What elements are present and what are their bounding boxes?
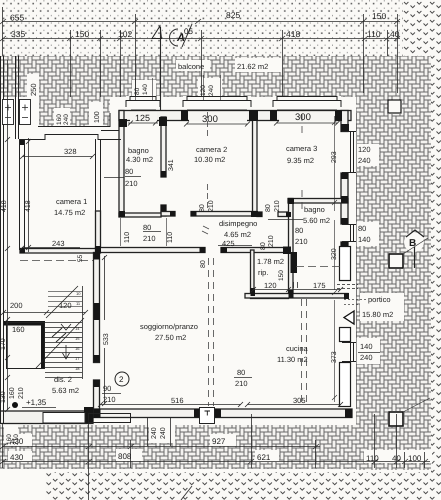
- svg-text:dis. 2: dis. 2: [54, 375, 72, 384]
- svg-text:4.65 m2: 4.65 m2: [224, 230, 251, 239]
- column mid border: [389, 254, 403, 268]
- svg-text:5.63 m2: 5.63 m2: [52, 386, 79, 395]
- svg-text:27.50 m2: 27.50 m2: [155, 333, 186, 342]
- svg-text:9.35 m2: 9.35 m2: [287, 156, 314, 165]
- svg-text:210: 210: [274, 200, 281, 212]
- svg-text:150: 150: [372, 11, 386, 21]
- svg-text:120: 120: [59, 301, 72, 310]
- lift box dark right wall: [41, 321, 45, 369]
- svg-text:140: 140: [360, 342, 373, 351]
- 240 240 rotated patch: [149, 423, 175, 443]
- svg-text:80: 80: [358, 224, 366, 233]
- section line dashed through cucina double: [302, 299, 307, 406]
- section marker A slash: [182, 24, 192, 47]
- portico pilaster mid: [340, 328, 351, 342]
- soggiorno left wall door jambs: [94, 355, 100, 362]
- 240 ext lines bottom: [148, 418, 171, 446]
- camera1 bottom wall: [20, 249, 96, 254]
- svg-text:cucina: cucina: [286, 344, 309, 353]
- B marker chevron: [406, 230, 424, 237]
- svg-text:240: 240: [358, 156, 371, 165]
- svg-text:927: 927: [212, 437, 226, 446]
- stair break marks: [52, 328, 66, 342]
- svg-text:418: 418: [25, 200, 32, 212]
- porch step box 2: [89, 414, 131, 423]
- camera3 bottom wall right seg: [278, 212, 291, 217]
- top dim line 1: [2, 21, 400, 23]
- svg-text:15.80 m2: 15.80 m2: [362, 310, 393, 319]
- svg-text:4.30 m2: 4.30 m2: [126, 155, 153, 164]
- svg-text:14.75 m2: 14.75 m2: [54, 208, 85, 217]
- 160/240 label patch left: [54, 108, 70, 126]
- right wall window jambs: [341, 126, 348, 132]
- 120/240 patch win2: [198, 78, 222, 97]
- bagno2 80/210 leader: [268, 219, 303, 221]
- entry door T mark: [205, 411, 211, 416]
- svg-text:250: 250: [29, 83, 38, 96]
- svg-text:655: 655: [10, 13, 24, 23]
- svg-text:balcone: balcone: [178, 62, 204, 71]
- svg-text:110: 110: [366, 454, 379, 463]
- divider1 door jambs: [161, 171, 167, 177]
- svg-text:soggiorno/pranzo: soggiorno/pranzo: [140, 322, 198, 331]
- soggiorno left wall lower: [94, 380, 100, 413]
- camera2 bottom door jambs: [170, 211, 176, 217]
- svg-text:516: 516: [171, 396, 184, 405]
- cucina top dim line: [251, 287, 343, 292]
- svg-text:373: 373: [331, 351, 338, 363]
- top extension verticals: [3, 7, 398, 97]
- soggiorno left wall upper: [94, 253, 100, 363]
- svg-text:170: 170: [0, 338, 7, 350]
- corridor bottom wall left seg (soggiorno top): [96, 248, 206, 253]
- camera3 door jambs: [257, 212, 262, 217]
- svg-text:210: 210: [125, 179, 138, 188]
- bagno1/camera2 divider lower: [161, 205, 166, 216]
- bottom wall soggiorno left seg: [94, 409, 201, 418]
- svg-text:16: 16: [75, 346, 80, 351]
- duct strip top line: [101, 130, 119, 132]
- svg-text:5.60 m2: 5.60 m2: [303, 216, 330, 225]
- 100 label patch: [89, 102, 103, 126]
- camera1 right wall bottom: [95, 246, 101, 253]
- tread numbers: [75, 291, 81, 371]
- jamb blob win300b right: [335, 110, 342, 121]
- 80/140 patch win1: [132, 80, 156, 96]
- bottom ground band: [45, 472, 441, 500]
- svg-text:240: 240: [360, 353, 373, 362]
- rip door leaf: [291, 252, 298, 273]
- svg-text:120: 120: [264, 281, 277, 290]
- svg-text:150: 150: [278, 270, 285, 281]
- bottom extension verticals: [3, 414, 425, 500]
- top-right scale corner: [403, 0, 441, 57]
- window glass line win300b: [277, 109, 337, 111]
- top dim ticks line1: [0, 19, 400, 24]
- svg-text:210: 210: [235, 379, 248, 388]
- svg-text:bagno: bagno: [304, 205, 325, 214]
- svg-text:21.62 m2: 21.62 m2: [237, 62, 268, 71]
- portico pilaster lower: [340, 363, 351, 407]
- right hatch strip: [356, 56, 441, 470]
- 927 patch: [210, 434, 236, 446]
- corridor bottom wall right seg: [221, 248, 288, 253]
- svg-text:335: 335: [11, 29, 25, 39]
- top dim line 2: [2, 38, 400, 40]
- svg-text:341: 341: [168, 159, 175, 171]
- portico leader dots: [344, 299, 366, 301]
- svg-text:175: 175: [313, 281, 326, 290]
- svg-text:102: 102: [118, 29, 132, 39]
- soggiorno left wall top: [94, 253, 101, 260]
- unit right wall (camera3 above window): [341, 111, 348, 132]
- svg-text:portico: portico: [368, 295, 391, 304]
- left dim ticks: [5, 137, 10, 412]
- svg-text:100: 100: [408, 454, 422, 463]
- svg-text:2: 2: [119, 375, 124, 384]
- svg-text:80: 80: [125, 167, 133, 176]
- window sill win300b: [273, 97, 341, 108]
- balcone hatch strip: [0, 56, 356, 97]
- corridor door jambs: [200, 247, 206, 253]
- svg-text:110: 110: [124, 232, 131, 243]
- column cutout mid: [388, 253, 404, 269]
- portico label patch: [360, 293, 404, 321]
- level dot +1,35: [12, 402, 18, 408]
- 430 patch 2: [8, 451, 32, 462]
- svg-text:80: 80: [237, 368, 245, 377]
- svg-text:+1,35: +1,35: [26, 398, 47, 407]
- 425 dim line disimpegno: [218, 245, 252, 247]
- 140/240 patch right cucina window: [348, 342, 357, 362]
- svg-text:11.30 m2: 11.30 m2: [277, 355, 308, 364]
- svg-text:320: 320: [331, 248, 338, 260]
- cucina top wall corners: [344, 293, 349, 299]
- svg-text:621: 621: [257, 453, 271, 462]
- camera2/3 divider bottom: [251, 211, 258, 217]
- stair arrow chevron upper: [61, 324, 71, 330]
- svg-text:418: 418: [286, 29, 300, 39]
- svg-text:160: 160: [56, 114, 63, 125]
- svg-text:55: 55: [77, 254, 84, 262]
- svg-text:300: 300: [202, 114, 218, 125]
- stair diagonal lower: [36, 318, 84, 368]
- svg-text:10.30 m2: 10.30 m2: [194, 155, 225, 164]
- camera1 bottom left corner: [20, 248, 25, 253]
- bagno1 bottom corner: [119, 211, 125, 217]
- soggiorno left wall blob at stair top: [94, 303, 100, 320]
- portico lintel dashes: [337, 285, 358, 289]
- svg-text:camera 2: camera 2: [196, 145, 227, 154]
- svg-text:210: 210: [268, 235, 275, 247]
- svg-text:140: 140: [358, 235, 371, 244]
- portico pilaster upper: [340, 247, 351, 281]
- B marker stem: [414, 247, 416, 268]
- svg-text:80: 80: [260, 242, 267, 250]
- entry door box: [200, 408, 215, 424]
- svg-text:130: 130: [0, 391, 7, 403]
- column bottom leader: [403, 398, 430, 412]
- camera1 top left corner: [19, 139, 25, 145]
- bottom wall right seg cucina: [215, 409, 352, 418]
- portico dashed edge: [344, 304, 358, 306]
- jamb blob win300b left: [270, 110, 277, 121]
- section B dashed horizontal: [20, 261, 344, 267]
- section A vertical line: [160, 27, 162, 110]
- svg-text:40: 40: [392, 454, 401, 463]
- 305 dim line cucina: [245, 402, 343, 407]
- svg-text:80: 80: [199, 204, 206, 212]
- svg-text:90: 90: [103, 384, 111, 393]
- svg-text:80: 80: [295, 226, 303, 235]
- svg-text:17: 17: [75, 356, 80, 361]
- right rooms vertical dim line: [332, 116, 337, 402]
- svg-text:808: 808: [118, 452, 132, 461]
- svg-text:300: 300: [295, 112, 311, 123]
- 621 patch: [255, 450, 279, 462]
- svg-text:10: 10: [76, 291, 81, 296]
- B marker patch: [404, 232, 424, 252]
- svg-text:210: 210: [18, 387, 25, 399]
- column top border: [388, 100, 401, 113]
- bagno2 bottom left corner: [289, 290, 294, 298]
- camera3 bottom wall left seg: [257, 212, 262, 217]
- left vertical dim line: [7, 60, 9, 410]
- camera1 top boundary stepped line: [20, 135, 121, 140]
- camera1 right wall thin lines: [95, 139, 97, 213]
- svg-text:160: 160: [12, 325, 25, 334]
- svg-text:40: 40: [390, 29, 400, 39]
- top dim ticks line2: [0, 36, 400, 41]
- window opening clears in top wall band: [130, 112, 336, 122]
- top dotted band: [0, 0, 405, 56]
- svg-text:305: 305: [293, 396, 306, 405]
- svg-text:80: 80: [143, 223, 151, 232]
- corner right top: [341, 124, 349, 132]
- svg-text:120: 120: [358, 145, 371, 154]
- unit right wall (below bagno2 window): [341, 242, 348, 247]
- left outer wall bottom part: [0, 411, 93, 424]
- lift box dark top: [3, 321, 45, 326]
- lift box stair: [7, 323, 45, 369]
- window boxes top-left: [3, 100, 14, 125]
- svg-text:240: 240: [160, 427, 167, 439]
- camera1 right wall lower: [96, 211, 101, 253]
- svg-text:150: 150: [75, 29, 89, 39]
- svg-text:camera 3: camera 3: [286, 144, 317, 153]
- window glass line win125: [131, 109, 156, 111]
- balcone window label dim lines: [136, 75, 221, 100]
- svg-text:110: 110: [167, 232, 174, 243]
- portico entry triangle: [344, 311, 354, 324]
- white cutouts in hatch for labels: [4, 58, 432, 463]
- 140/240 fraction bar: [358, 352, 380, 354]
- svg-text:80: 80: [200, 260, 207, 268]
- cucina window right sill: [342, 342, 356, 362]
- svg-text:430: 430: [10, 453, 24, 462]
- svg-text:15: 15: [75, 336, 80, 341]
- svg-text:430: 430: [10, 437, 24, 446]
- jamb blob win125 right / divider top: [159, 117, 167, 126]
- door swing dashes disimpegno: [202, 226, 209, 234]
- circled 2 soggiorno: [115, 372, 129, 386]
- porch step box 1: [43, 413, 85, 424]
- corridor 80/210 fraction bar: [143, 231, 161, 233]
- top wall band full: [119, 111, 351, 121]
- 328 dim line camera1: [20, 154, 95, 159]
- left outer wall bottom corner blob: [84, 407, 93, 423]
- 300 dim line win2: [184, 122, 250, 127]
- stair block left wall line: [15, 56, 17, 139]
- window sill win300a: [183, 97, 251, 108]
- svg-text:rip.: rip.: [258, 268, 268, 277]
- svg-text:camera 1: camera 1: [56, 197, 87, 206]
- bottom ticks: [0, 444, 428, 464]
- section A dashed through camera2: [207, 112, 209, 211]
- svg-text:1.78 m2: 1.78 m2: [257, 257, 284, 266]
- svg-text:200: 200: [10, 301, 23, 310]
- section A dashed through soggiorno/cucina double: [209, 258, 214, 406]
- bottom hatch strip: [0, 425, 441, 469]
- section line dashed through camera3: [301, 114, 303, 212]
- corridor vertical dim lines: [121, 218, 167, 246]
- cucina top wall: [245, 294, 348, 299]
- stair treads upper flight: [48, 292, 82, 307]
- right edge ground strip: [431, 56, 441, 472]
- 90/210 fraction bar: [102, 393, 121, 395]
- stair treads lower flight: [45, 323, 82, 378]
- svg-text:100: 100: [94, 111, 101, 123]
- 430 patch 1: [8, 434, 32, 446]
- camera2/camera3 divider: [253, 112, 258, 214]
- section squiggle bottom: [181, 486, 192, 500]
- 200/120 dim line stairs: [1, 310, 88, 408]
- 450/210 rotated patch: [4, 423, 18, 443]
- camera3 window right sill: [342, 131, 356, 173]
- column mid leader: [403, 238, 428, 254]
- stair side line: [82, 286, 84, 379]
- svg-text:210: 210: [143, 234, 156, 243]
- window glass line win300a: [187, 109, 247, 111]
- svg-text:210: 210: [103, 395, 116, 404]
- balcone label patch: [176, 60, 210, 71]
- camera2 bottom wall right seg: [191, 212, 257, 217]
- bottom dim line 2: [2, 461, 430, 463]
- bagno2 top left corner: [288, 198, 294, 204]
- entry door jambs: [194, 409, 200, 418]
- stair down arrow: [63, 345, 70, 359]
- 125 dim line win1: [128, 121, 158, 126]
- svg-text:120: 120: [200, 85, 207, 96]
- svg-text:418: 418: [1, 200, 8, 212]
- rip door jamb block: [283, 247, 291, 255]
- svg-text:140: 140: [142, 84, 149, 95]
- camera1 left wall double line: [19, 139, 21, 250]
- svg-text:B: B: [409, 238, 416, 249]
- camera2 bottom wall left seg: [161, 212, 175, 217]
- svg-text:160: 160: [9, 387, 16, 399]
- rip bottom wall: [251, 295, 289, 299]
- 516 dim line soggiorno: [98, 402, 243, 407]
- wall junction black blobs: [3, 110, 352, 423]
- svg-text:14: 14: [75, 326, 80, 331]
- section marker A arc: [170, 29, 179, 46]
- soggiorno 533 dim line: [102, 255, 107, 406]
- svg-text:05: 05: [184, 27, 193, 36]
- bagno2 window right sill: [342, 224, 356, 242]
- 243 dim line camera1: [20, 245, 80, 250]
- bagno1 left wall: [119, 111, 124, 217]
- bottom dim line 1: [2, 446, 320, 448]
- column cutout top: [388, 100, 402, 114]
- stair diagonal upper: [46, 286, 78, 318]
- 80/210 cucina fraction bar: [234, 377, 252, 379]
- svg-text:240: 240: [63, 114, 70, 125]
- 300 dim line win3: [274, 121, 340, 126]
- 80/140 patch right bagno2 window: [348, 224, 357, 242]
- far left outer wall lines: [0, 56, 2, 424]
- bottom wall right corner: [345, 409, 352, 418]
- bottom wall left corner: [94, 409, 101, 418]
- svg-text:533: 533: [103, 333, 110, 345]
- rip left wall: [251, 250, 255, 296]
- svg-text:328: 328: [64, 147, 77, 156]
- bagno1 bottom wall: [119, 213, 161, 217]
- rip bottom left corner: [251, 288, 256, 296]
- camera1 left inner dim line: [26, 138, 31, 252]
- svg-text:disimpegno: disimpegno: [219, 219, 257, 228]
- bagno1/camera2 divider upper: [161, 117, 166, 177]
- bagno1 80/210 leader: [104, 177, 141, 178]
- svg-text:243: 243: [52, 239, 65, 248]
- bagno2 top wall: [288, 199, 348, 204]
- double tick marks near 175: [294, 282, 298, 288]
- svg-text:425: 425: [222, 239, 235, 248]
- balcone inner edge above camera1: [38, 113, 110, 127]
- hatch edge line right: [356, 113, 358, 409]
- svg-text:293: 293: [331, 151, 338, 163]
- 250 label patch: [27, 74, 39, 126]
- column cutout bottom: [388, 411, 404, 427]
- svg-text:80: 80: [134, 87, 141, 95]
- svg-text:80: 80: [265, 204, 272, 212]
- svg-text:18: 18: [75, 366, 80, 371]
- bagno2 left wall: [289, 199, 294, 297]
- svg-text:125: 125: [135, 113, 150, 123]
- window sill win125: [126, 97, 160, 108]
- svg-text:210: 210: [208, 200, 215, 212]
- 110 40 100 patch: [364, 450, 432, 463]
- window sill whites: [126, 96, 160, 108]
- unit right wall (camera3 window to bagno2 window): [341, 173, 348, 224]
- svg-text:825: 825: [226, 10, 240, 20]
- svg-text:240: 240: [208, 85, 215, 96]
- 808 patch: [116, 449, 142, 461]
- 120/240 patch right camera3 window: [348, 131, 357, 173]
- jamb blob win300a right divider top: [249, 110, 258, 121]
- svg-text:240: 240: [151, 427, 158, 439]
- svg-text:A: A: [176, 32, 185, 44]
- svg-text:110: 110: [367, 29, 381, 39]
- section marker A triangle: [152, 26, 162, 39]
- column bottom border: [389, 412, 403, 426]
- jamb blob win300a left: [181, 110, 188, 121]
- svg-text:210: 210: [295, 237, 308, 246]
- svg-text:bagno: bagno: [128, 146, 149, 155]
- jamb blob win125 left: [119, 119, 127, 127]
